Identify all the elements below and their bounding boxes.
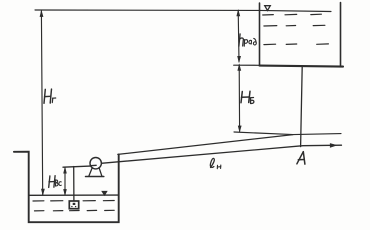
dimension line H_B (vertical with arrows) xyxy=(238,65,241,132)
dimension line H_vs (vertical with arrows) xyxy=(64,168,67,195)
label l_n (pipe length) xyxy=(210,158,214,167)
water hatching dashes, lower reservoir row 1 xyxy=(33,200,114,203)
water hatching dashes, upper tank row 1 xyxy=(263,13,322,16)
wire: ground line from lower reservoir wall rising to node A xyxy=(118,135,293,155)
wire: riser pipe from upper tank down to node A xyxy=(301,67,303,147)
dimension line h_rab (vertical with arrows) xyxy=(237,10,241,62)
wire: lower extension line at pipe level xyxy=(234,132,341,135)
water hatching dashes, upper tank row 2 xyxy=(264,24,325,27)
label H_B xyxy=(241,91,250,102)
pump (circle with mount) xyxy=(86,158,104,177)
suction drop pipe to foot valve xyxy=(73,167,75,202)
wire: extension line at tank bottom level (left of tank) xyxy=(234,64,260,66)
suction pipe horizontal into pump xyxy=(63,166,96,167)
upper tank xyxy=(259,3,261,65)
label node A xyxy=(297,152,305,164)
dimension line H_g (left, vertical with arrows) xyxy=(40,11,44,195)
wire: upper water-level extension line xyxy=(35,10,331,12)
water surface line, lower reservoir xyxy=(29,194,118,196)
water level symbol (nabla) upper tank xyxy=(265,6,271,11)
foot valve (strainer box) xyxy=(69,201,78,209)
lower reservoir walls xyxy=(14,152,119,223)
pipe l_n : discharge line from pump to the right with flow arrow xyxy=(101,144,341,164)
label h_rab xyxy=(239,34,244,46)
water hatching dashes, upper tank row 3 xyxy=(264,43,329,46)
label H_g xyxy=(44,89,56,103)
water level symbol (nabla) lower reservoir xyxy=(102,191,107,195)
water hatching dashes, lower reservoir row 2 xyxy=(35,209,115,212)
label H_vs xyxy=(49,176,55,188)
